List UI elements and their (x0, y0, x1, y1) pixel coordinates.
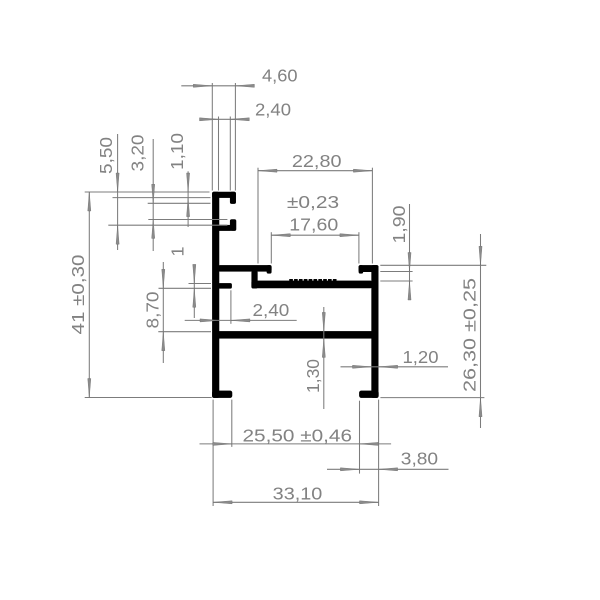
dimension 1 (168, 246, 196, 318)
dimension 1,20 (341, 347, 449, 369)
extension line cap top (148, 219, 227, 221)
profile stub (219, 225, 231, 230)
svg-text:3,80: 3,80 (401, 449, 438, 469)
profile left wall (212, 192, 219, 398)
dimension 5,50 (96, 134, 119, 250)
svg-text:25,50 ±0,46: 25,50 ±0,46 (243, 426, 353, 446)
dimension 2,40 top (200, 99, 292, 121)
svg-text:±0,23: ±0,23 (287, 192, 339, 212)
profile knurl teeth (290, 279, 337, 282)
dimension 1,90 (389, 204, 411, 300)
profile cap (230, 220, 236, 231)
profile flange lip (267, 265, 271, 273)
svg-text:33,10: 33,10 (273, 484, 323, 504)
svg-text:1,10: 1,10 (167, 133, 187, 170)
extension line 2,40 right (229, 117, 231, 191)
extension line 33,10 right / 3,80 right (378, 400, 380, 506)
extension line mid tab bottom (159, 287, 212, 289)
svg-text:5,50: 5,50 (96, 137, 116, 174)
profile bottom bar (219, 331, 372, 338)
extension line stub top (108, 224, 227, 226)
dimension 4,60 (181, 66, 297, 88)
extension line 2,40 left (218, 117, 220, 191)
profile top flange (219, 265, 272, 271)
dimension 22,80 (258, 151, 372, 172)
profile top bar (212, 192, 235, 198)
extension line 2,40 mid right (230, 290, 232, 324)
svg-text:1,30: 1,30 (303, 359, 323, 393)
extension line tab bottom (right) (380, 271, 412, 273)
dimension 1,10 (167, 133, 190, 227)
profile right tab lip (359, 265, 363, 273)
extension line top bar top (left) (85, 191, 210, 193)
svg-text:8,70: 8,70 (143, 291, 163, 328)
svg-text:4,60: 4,60 (262, 66, 298, 86)
svg-text:1: 1 (168, 246, 188, 256)
extension line 4,60 left (211, 83, 213, 191)
extension line flange top (right) (380, 264, 486, 266)
svg-text:22,80: 22,80 (292, 151, 342, 171)
svg-text:1,20: 1,20 (403, 347, 439, 367)
profile lower flange (252, 281, 372, 288)
svg-text:2,40: 2,40 (253, 300, 290, 320)
dimension 17,60 (271, 215, 359, 237)
extension line 4,60 right (234, 83, 236, 191)
svg-text:3,20: 3,20 (128, 134, 148, 171)
extension line 22,80 left (257, 168, 259, 264)
dimension 3,20 (128, 134, 155, 251)
extension line lip bottom (148, 202, 211, 204)
profile left mid tab (219, 283, 232, 288)
extension line lower flange top (right) (380, 280, 412, 282)
extension line profile bottom (left) (85, 397, 212, 399)
extension line bottom bar top (left) (158, 331, 211, 333)
profile right wall (372, 265, 379, 397)
extension line 22,80 right (371, 168, 373, 264)
extension line 25,50 right / 3,80 left (359, 401, 361, 474)
extension line 17,60 left (270, 232, 272, 263)
dimension 2,40 mid (185, 300, 297, 322)
svg-text:2,40: 2,40 (255, 99, 291, 119)
svg-text:17,60: 17,60 (289, 215, 338, 235)
extension line mid tab top (189, 283, 212, 285)
dimension 8,70 (143, 262, 165, 363)
dimension 25,50 ±0,46 (200, 426, 392, 446)
tolerance ±0,23 (287, 192, 339, 212)
profile web (252, 271, 258, 288)
dimension 26,30 ±0,25 (460, 234, 482, 428)
dimension 3,80 (327, 449, 449, 471)
profile left foot (212, 391, 232, 398)
extension line 17,60 right (358, 232, 360, 263)
extension line 25,50 left (231, 400, 233, 447)
extension line profile bottom (right) (380, 397, 484, 399)
extension line 33,10 left (212, 400, 214, 506)
dimension 41 ±0,30 (68, 192, 91, 398)
svg-text:26,30 ±0,25: 26,30 ±0,25 (460, 278, 480, 392)
svg-text:41 ±0,30: 41 ±0,30 (68, 254, 88, 334)
extension line top bar bottom (113, 197, 211, 199)
profile top lip (230, 192, 236, 204)
dimension 1,30 (303, 307, 325, 409)
profile right tab (359, 265, 378, 271)
dimension 33,10 (213, 484, 378, 504)
svg-text:1,90: 1,90 (389, 205, 409, 243)
profile right foot (359, 391, 378, 398)
